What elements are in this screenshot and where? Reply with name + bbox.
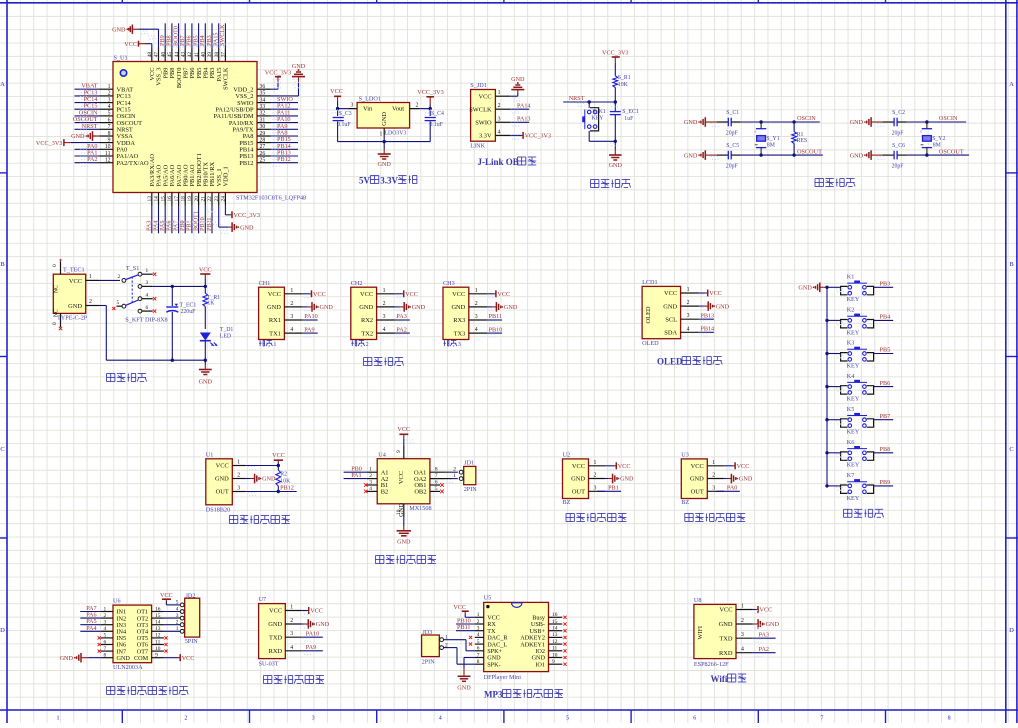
svg-text:1: 1 [741,604,744,610]
svg-text:KEY: KEY [847,296,860,303]
wire JD3 pin1 to SPK+ [444,639,467,641]
U4 pin 10 stub [403,504,405,517]
capacitor T_EC1 220uF polarized [171,286,173,306]
svg-text:OSCIN: OSCIN [939,115,958,122]
wire LCD1 pin1 to VCC [699,292,706,294]
svg-text:GND: GND [359,304,373,311]
svg-text:K2: K2 [847,307,855,314]
svg-text:19: 19 [187,196,193,202]
mcu right pin 36 [257,88,271,90]
svg-text:U8: U8 [694,597,702,604]
svg-text:NRST: NRST [569,95,585,102]
TEC1 bottom NC pin [60,313,62,327]
junction bus K6 [825,451,828,454]
ground under LDO [378,153,391,155]
svg-text:0.1uF: 0.1uF [337,122,351,128]
no-connect U5 right pin 9 [563,663,566,666]
svg-text:K4: K4 [847,373,855,380]
svg-text:30: 30 [260,124,266,130]
svg-text:T_D1: T_D1 [220,327,234,333]
wire net PC14 to pin 3 [75,102,100,104]
wire net PB10 at CH3 pin4 [487,332,502,334]
svg-text:1: 1 [273,341,276,348]
svg-text:PB10: PB10 [489,326,503,333]
power VCC_3V3 at mcu pin 9 VDDA [63,139,65,146]
ground U6 pin8 [81,657,85,659]
mcu top pin 47 [158,49,160,62]
svg-text:KEY: KEY [847,495,860,502]
crystal Y at x 761 [759,120,762,123]
svg-text:40: 40 [201,52,207,58]
wire net PA0 [716,490,740,492]
svg-text:1: 1 [453,473,456,479]
svg-text:JD1: JD1 [464,459,474,466]
wire VDD_1 pin24 to VCC_3V3 [224,206,226,215]
svg-text:PB12: PB12 [239,160,253,167]
mcu bottom pin 16 [171,193,173,206]
svg-text:VCC_3V3: VCC_3V3 [525,133,551,140]
power VCC_3V3 at pin36 [275,76,281,78]
svg-text:4: 4 [687,326,690,332]
svg-text:VCC_3V3: VCC_3V3 [234,212,260,219]
wire Vout to VCC_3V3 and C4 [420,108,431,110]
wire net PA10 at CH1 pin3 [303,319,318,321]
ground at pin35 [292,76,305,78]
svg-text:8M: 8M [767,143,775,149]
power VCC_3V3 at J-Link pin4 [522,132,524,139]
svg-text:3.3V: 3.3V [479,133,492,140]
svg-text:4: 4 [498,129,501,135]
svg-text:LINK: LINK [470,143,485,150]
svg-text:GND: GND [397,539,411,546]
svg-text:13: 13 [147,196,153,202]
svg-text:2: 2 [108,91,111,97]
svg-text:10: 10 [396,509,402,515]
svg-text:SWIO: SWIO [475,120,492,127]
svg-text:20pF: 20pF [892,131,905,137]
svg-text:44: 44 [174,52,180,58]
svg-text:BZ: BZ [563,499,571,506]
wire pin4 to VCC_3V3 [510,134,521,136]
wire U7 VCC [302,610,307,612]
svg-text:3: 3 [594,485,597,491]
svg-text:7: 7 [435,473,438,479]
svg-text:S_C5: S_C5 [726,143,739,149]
svg-text:PA2: PA2 [759,646,769,653]
svg-text:GND: GND [571,476,585,483]
mcu top pin 42 [191,49,193,62]
svg-text:PA4: PA4 [86,625,96,632]
capacitor C4 0.1uF [429,109,431,116]
power VCC_3V3 at pin24 [231,211,233,218]
wire K6 to net PB8 [874,452,894,454]
wire OSCIN rail [907,121,967,123]
svg-text:VCC_3V3: VCC_3V3 [602,50,628,57]
wire net PA2 to pin 12 [75,162,100,164]
svg-text:2: 2 [290,618,293,624]
svg-text:2: 2 [366,341,369,348]
svg-text:10K: 10K [280,479,291,485]
svg-text:6: 6 [693,716,696,722]
svg-text:GND: GND [798,285,812,292]
svg-text:S_LDO1: S_LDO1 [359,96,381,103]
wire net PA15 riser [218,23,220,48]
wire bus to K2 [827,319,841,321]
svg-text:S_C6: S_C6 [892,143,905,149]
svg-text:T_EC1: T_EC1 [180,302,197,308]
wire resistor to NRST node [614,88,616,103]
svg-text:2: 2 [369,473,372,479]
svg-text:3: 3 [312,716,315,722]
mcu left pin 7 [100,128,114,130]
svg-text:PB8: PB8 [880,446,891,453]
wire net NRST to pin 7 [75,128,100,130]
svg-text:3: 3 [475,314,478,320]
svg-text:NRST: NRST [82,123,98,130]
svg-text:7: 7 [820,716,823,722]
svg-text:OSCOUT: OSCOUT [797,148,822,155]
junction bus K4 [825,385,828,388]
junction bus K7 [825,484,828,487]
svg-text:9: 9 [396,450,402,453]
svg-text:GND: GND [377,161,391,168]
svg-text:TX2: TX2 [361,330,373,337]
svg-text:5PIN: 5PIN [185,638,199,645]
wire net PB1 bottom riser [191,206,193,234]
svg-text:GND: GND [71,133,85,140]
svg-text:29: 29 [260,131,266,137]
svg-text:1: 1 [498,90,501,96]
crystal Y at x 927 [925,120,928,123]
svg-text:J-Link OB: J-Link OB [478,157,519,167]
svg-text:6: 6 [477,646,480,652]
svg-text:2: 2 [477,619,480,625]
svg-text:SCL: SCL [665,316,677,323]
title voice module [264,675,272,677]
wire bus to K6 [827,452,841,454]
svg-text:17: 17 [174,196,180,202]
svg-text:11: 11 [155,639,160,645]
ground U3 [724,478,727,480]
svg-text:12: 12 [155,633,161,639]
wire net PB5 riser [198,23,200,48]
svg-text:D: D [0,627,5,634]
ground at pin23 [229,226,233,228]
wire net PB15 [271,142,299,144]
title reset circuit [591,179,599,181]
svg-text:KEY: KEY [847,429,860,436]
svg-text:Wifi: Wifi [711,674,728,684]
svg-text:U4: U4 [378,452,386,459]
svg-text:2: 2 [290,301,293,307]
svg-text:GND: GND [60,655,74,662]
push button S_K1 KEY [588,102,590,108]
wire net PB10 bottom riser [204,206,206,234]
svg-text:1: 1 [475,288,478,294]
svg-text:GND: GND [766,621,780,628]
svg-text:KEY: KEY [847,362,860,369]
no-connect U5 right pin 15 [563,622,566,625]
svg-text:GND: GND [68,303,82,310]
junction bus K2 [825,319,828,322]
mcu bottom pin 21 [204,193,206,206]
svg-text:2: 2 [416,102,419,108]
wire net PA1 to pin 11 [75,155,100,157]
wire net SWIO [271,102,299,104]
no-connect U5 right pin 10 [563,656,566,659]
wire net PB1 [598,490,622,492]
svg-text:1uF: 1uF [624,116,634,122]
svg-text:B: B [0,261,5,268]
svg-text:37: 37 [221,52,227,58]
svg-text:VCC: VCC [664,290,677,297]
svg-text:GND: GND [320,304,334,311]
wire COM to VCC [164,657,178,659]
svg-text:S_KFT DIP-8X8: S_KFT DIP-8X8 [125,317,167,324]
wire net BOOT1 bottom riser [198,206,200,234]
svg-text:4: 4 [369,486,372,492]
wire pin1 to GND [510,95,518,97]
svg-text:1: 1 [712,460,715,466]
svg-text:PB5: PB5 [880,347,891,354]
wires OT1-OT4 to JD2 [164,611,181,613]
svg-text:S_Y2: S_Y2 [932,136,945,142]
svg-text:11: 11 [105,151,111,157]
svg-text:GND: GND [381,112,388,126]
svg-text:LDO3V3: LDO3V3 [385,130,407,136]
wire K3 to net PB5 [874,353,894,355]
svg-text:VDD_1: VDD_1 [223,166,230,186]
wire to ground power circuit [204,360,206,364]
svg-text:35: 35 [260,91,266,97]
svg-text:GND: GND [112,27,126,34]
svg-text:Vin: Vin [363,106,373,113]
title key circuit [844,508,852,510]
svg-text:11: 11 [552,646,557,652]
svg-text:2: 2 [104,613,107,619]
svg-text:VCC: VCC [313,291,326,298]
svg-text:OLED: OLED [642,340,659,347]
wire to resistor R1 [614,62,616,76]
svg-text:PB11: PB11 [489,313,503,320]
TEC1 pin 2 GND [86,305,99,307]
wire CH1 pin1 to VCC [303,293,310,295]
svg-text:12: 12 [105,158,111,164]
mcu bottom pin 19 [191,193,193,206]
svg-text:3: 3 [458,341,461,348]
svg-text:10: 10 [155,646,161,652]
wire U2 VCC [605,465,614,467]
svg-text:34: 34 [260,97,266,103]
wire K2 to net PB4 [874,319,894,321]
svg-text:COM: COM [134,655,149,662]
svg-text:S_Y1: S_Y1 [766,136,779,142]
svg-text:VCC: VCC [497,291,510,298]
wire VCC pullup node [246,465,279,467]
switch dashed link [131,277,133,303]
svg-text:2: 2 [594,473,597,479]
mcu left pin 8 [100,135,114,137]
svg-text:1: 1 [477,612,480,618]
mcu right pin 34 [257,102,271,104]
svg-text:46: 46 [160,52,166,58]
title crystal circuits [815,178,823,180]
svg-text:1: 1 [383,288,386,294]
svg-text:41: 41 [194,52,200,58]
wire CH2 pin1 to VCC [395,293,402,295]
wire net PA3 [753,637,776,639]
svg-text:STM32F103C8T6_LQFP48: STM32F103C8T6_LQFP48 [236,195,306,202]
svg-text:21: 21 [201,196,207,202]
wire bus to K7 [827,485,841,487]
wire net PA14 [510,108,529,110]
svg-text:U5: U5 [484,595,492,602]
wire net PB7 riser [184,23,186,48]
svg-text:OSCOUT: OSCOUT [939,148,964,155]
svg-text:27: 27 [260,144,266,150]
svg-text:5: 5 [117,300,120,306]
svg-text:RES: RES [797,138,808,144]
svg-text:GND: GND [739,476,753,483]
svg-text:VCC: VCC [572,463,585,470]
capacitor C1 20pF [717,121,729,123]
mcu top pin 39 [211,49,213,62]
svg-text:4: 4 [176,606,179,612]
svg-text:3: 3 [290,631,293,637]
wire gnd down and bottom rail [99,305,106,307]
svg-text:KEY: KEY [847,396,860,403]
ground U4 [397,530,411,532]
wire ground rail under LDO [338,141,431,143]
title power circuit [107,373,115,375]
svg-text:20: 20 [194,196,200,202]
svg-text:20pF: 20pF [892,164,905,170]
svg-text:RX3: RX3 [453,317,465,324]
svg-text:8: 8 [435,467,438,473]
svg-text:2: 2 [237,473,240,479]
svg-text:OSCIN: OSCIN [797,115,816,122]
ground power circuit [199,369,212,371]
svg-text:20pF: 20pF [726,164,739,170]
svg-text:GND: GND [240,224,254,231]
svg-text:2PIN: 2PIN [422,658,436,665]
svg-text:9: 9 [155,653,158,659]
svg-text:KEY: KEY [592,116,605,122]
svg-text:2: 2 [176,620,179,626]
U4 pin 9 stub [403,445,405,458]
svg-text:R1: R1 [797,132,804,138]
svg-text:9: 9 [552,659,555,665]
ground for C1 [698,121,700,123]
svg-text:5: 5 [566,716,569,722]
svg-text:6: 6 [435,480,438,486]
svg-text:K6: K6 [847,439,855,446]
svg-text:PB11: PB11 [457,624,471,631]
ground above J-Link pin1 [511,89,524,91]
svg-text:PB12: PB12 [277,156,291,163]
ground U7 [302,623,304,625]
wire OSCOUT rail [907,154,970,156]
wire net PA9 [271,128,299,130]
svg-text:GND: GND [609,162,623,169]
svg-text:S_R1: S_R1 [618,75,631,81]
svg-text:PA0: PA0 [727,485,737,492]
power VCC_3V3 at LDO output [426,96,434,98]
resistor S_R1 10K [613,76,618,88]
svg-text:16: 16 [155,606,161,612]
svg-text:TXD: TXD [269,634,283,641]
wire net PB12 [271,162,299,164]
node NRST wire [563,101,615,103]
svg-text:U1: U1 [206,451,214,458]
svg-text:GND: GND [457,685,471,692]
mcu left pin 9 [100,142,114,144]
junction bus K1 [825,286,828,289]
wire U8 VCC [753,609,756,611]
wire net OSCOUT to pin 6 [75,122,100,124]
wire net PA11 [271,115,299,117]
svg-text:2: 2 [89,299,92,305]
svg-text:16: 16 [167,196,173,202]
svg-text:9: 9 [108,137,111,143]
mcu right pin 30 [257,128,271,130]
svg-text:GND: GND [690,476,704,483]
title temperature module [229,515,237,517]
svg-text:1: 1 [89,274,92,280]
wire net PA6 bottom riser [171,206,173,234]
capacitor C2 20pF [883,121,895,123]
svg-text:PB4: PB4 [880,314,891,321]
svg-text:36: 36 [260,84,266,90]
resistor T_R1 1K [204,286,206,293]
capacitor C3 0.1uF [337,109,339,116]
ground U8 [753,623,754,625]
no-connect U5 right pin 14 [563,629,566,632]
svg-text:8: 8 [108,131,111,137]
svg-text:GND: GND [451,304,465,311]
svg-text:S_K1: S_K1 [593,109,606,115]
svg-text:VCC: VCC [330,88,343,95]
svg-text:VCC_3V3: VCC_3V3 [417,89,443,96]
svg-text:VCC: VCC [199,266,212,273]
wire net PB14 [271,148,299,150]
svg-text:GND: GND [199,379,213,386]
svg-text:GND: GND [850,119,864,126]
wire VCC to Vin and C3 [337,101,339,109]
svg-text:5: 5 [108,111,111,117]
no-connect U5 right pin 13 [563,636,566,639]
svg-text:1: 1 [594,460,597,466]
wire net PB8 riser [171,23,173,48]
svg-text:2: 2 [687,300,690,306]
svg-text:DFPlayer Mini: DFPlayer Mini [484,674,522,681]
wire net PA3 at CH2 pin3 [395,319,410,321]
mcu top pin 41 [198,49,200,62]
wire net PB6 riser [191,23,193,48]
svg-text:KEY: KEY [847,329,860,336]
LDO pin 1 GND [383,128,385,136]
svg-text:4: 4 [146,293,149,299]
svg-text:15: 15 [552,619,558,625]
svg-text:38: 38 [214,52,220,58]
mcu right pin 25 [257,162,271,164]
svg-text:4: 4 [290,645,293,651]
svg-text:16: 16 [552,612,558,618]
mcu left pin 12 [100,162,114,164]
wire net PC15 to pin 4 [75,108,100,110]
svg-text:2: 2 [741,618,744,624]
svg-text:VCC_3V3: VCC_3V3 [265,69,291,76]
